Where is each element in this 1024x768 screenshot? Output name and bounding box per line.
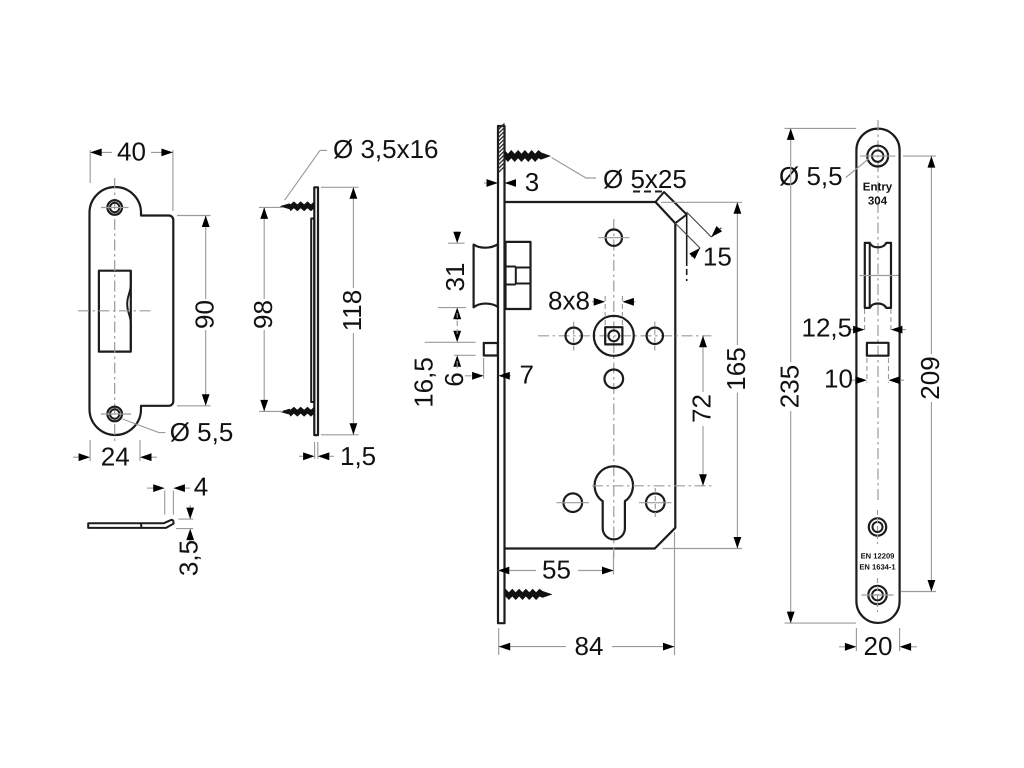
- dimension 98: [259, 206, 283, 208]
- dimension 40: [89, 150, 91, 183]
- strike plate bottom screw hole: [107, 407, 122, 422]
- label diameter 5,5 right: [846, 159, 869, 178]
- diameter 5,5 label left: [123, 419, 166, 433]
- latch bolt face curve in window: [127, 272, 131, 350]
- svg-text:EN 12209: EN 12209: [861, 552, 895, 561]
- svg-text:Ø 5,5: Ø 5,5: [170, 417, 234, 447]
- dimension 24: [89, 440, 91, 461]
- chamfer edge extension down: [686, 215, 688, 267]
- svg-text:165: 165: [721, 347, 751, 390]
- strike plate bent lip profile: [88, 520, 173, 528]
- faceplate middle screw hole: [869, 518, 886, 535]
- svg-text:Ø 5x25: Ø 5x25: [603, 164, 687, 194]
- lock case outline: [505, 202, 676, 549]
- faceplate front outline: [856, 129, 899, 623]
- latch bolt middle view: [474, 244, 498, 307]
- svg-text:20: 20: [864, 631, 893, 661]
- strike plate front view outline: [90, 187, 174, 435]
- svg-text:3: 3: [525, 167, 539, 197]
- euro cylinder hole: [595, 466, 633, 539]
- faceplate bottom screw hole: [868, 586, 886, 604]
- dimension 165: [661, 201, 742, 203]
- strike plate side view lip layer: [311, 219, 314, 403]
- faceplate section hatching: [498, 124, 505, 131]
- svg-text:209: 209: [915, 356, 945, 399]
- svg-text:40: 40: [117, 137, 146, 167]
- dimension 6: [454, 354, 476, 356]
- svg-text:Ø 5,5: Ø 5,5: [779, 161, 843, 191]
- label diameter 3,5x16: [285, 150, 327, 200]
- svg-text:72: 72: [687, 394, 717, 423]
- screw 5x25 bottom: [506, 589, 553, 600]
- svg-text:84: 84: [575, 631, 604, 661]
- dimension 4: [164, 491, 166, 515]
- guide hole below spindle: [605, 370, 624, 389]
- spindle horizontal centerline: [538, 335, 712, 337]
- strike plate vertical centerline: [114, 178, 116, 444]
- dimension 90: [177, 215, 211, 217]
- strike plate latch window: [99, 271, 131, 352]
- spindle side hole left: [566, 328, 582, 344]
- lock faceplate strip side view: [498, 126, 505, 623]
- svg-text:7: 7: [520, 360, 534, 390]
- svg-text:15: 15: [703, 242, 732, 272]
- dimension 209: [903, 155, 936, 157]
- deadbolt stub: [484, 343, 498, 356]
- phantom dash top edge: [633, 191, 663, 193]
- dimension 8x8: [604, 296, 606, 326]
- svg-text:3,5: 3,5: [174, 540, 204, 576]
- faceplate top screw hole: [867, 146, 888, 167]
- spindle square 8x8: [605, 327, 622, 344]
- dimension 16,5: [425, 341, 476, 343]
- spindle side hole right: [647, 328, 663, 344]
- svg-text:24: 24: [101, 441, 130, 471]
- svg-text:16,5: 16,5: [409, 357, 439, 408]
- square hole in faceplate: [867, 343, 889, 356]
- screw 3,5x16 top: [280, 201, 315, 211]
- cylinder side hole left: [564, 493, 583, 512]
- svg-text:55: 55: [542, 555, 571, 585]
- svg-text:6: 6: [439, 372, 469, 386]
- top corner chamfer band: [656, 192, 687, 223]
- svg-text:31: 31: [440, 263, 470, 292]
- svg-text:EN 1634-1: EN 1634-1: [859, 563, 896, 572]
- dimension 55: [613, 552, 615, 575]
- svg-text:10: 10: [824, 363, 853, 393]
- strike plate side view main plate: [314, 187, 318, 435]
- dimension 72: [702, 336, 704, 392]
- dimension 15: [687, 212, 712, 237]
- dimension 118: [321, 186, 359, 188]
- dimension 235: [785, 127, 857, 129]
- svg-text:90: 90: [190, 300, 220, 329]
- svg-text:304: 304: [868, 196, 888, 208]
- latch housing: [506, 242, 531, 309]
- spindle boss circle: [594, 316, 634, 356]
- dimension 3: [484, 182, 486, 184]
- svg-text:Entry: Entry: [863, 182, 893, 194]
- svg-text:12,5: 12,5: [802, 313, 853, 343]
- svg-text:118: 118: [337, 290, 367, 331]
- svg-text:8x8: 8x8: [548, 285, 590, 315]
- dimension 3,5: [178, 518, 193, 520]
- strike plate top screw hole: [107, 200, 122, 215]
- dimension 84: [498, 628, 500, 655]
- screw 5x25 top: [505, 150, 552, 162]
- latch bolt in faceplate window: [865, 243, 891, 308]
- svg-text:235: 235: [775, 365, 805, 408]
- dimension 10: [866, 358, 868, 383]
- svg-text:Ø 3,5x16: Ø 3,5x16: [333, 134, 439, 164]
- dimension 1,5: [314, 442, 316, 459]
- dimension 31: [448, 242, 465, 244]
- lock case vertical centerline: [613, 219, 615, 560]
- svg-text:1,5: 1,5: [340, 441, 376, 471]
- screw 3,5x16 bottom: [280, 407, 315, 417]
- dimension 12,5: [864, 309, 866, 333]
- strike plate horizontal centerline: [78, 310, 151, 312]
- cylinder side hole right: [646, 493, 665, 512]
- faceplate vertical centerline: [877, 120, 879, 500]
- svg-text:4: 4: [194, 471, 208, 501]
- top fixing hole: [606, 230, 622, 246]
- label diameter 5x25: [552, 158, 597, 179]
- dimension 20: [855, 628, 857, 651]
- svg-text:98: 98: [248, 300, 278, 329]
- dimension 7: [483, 358, 485, 379]
